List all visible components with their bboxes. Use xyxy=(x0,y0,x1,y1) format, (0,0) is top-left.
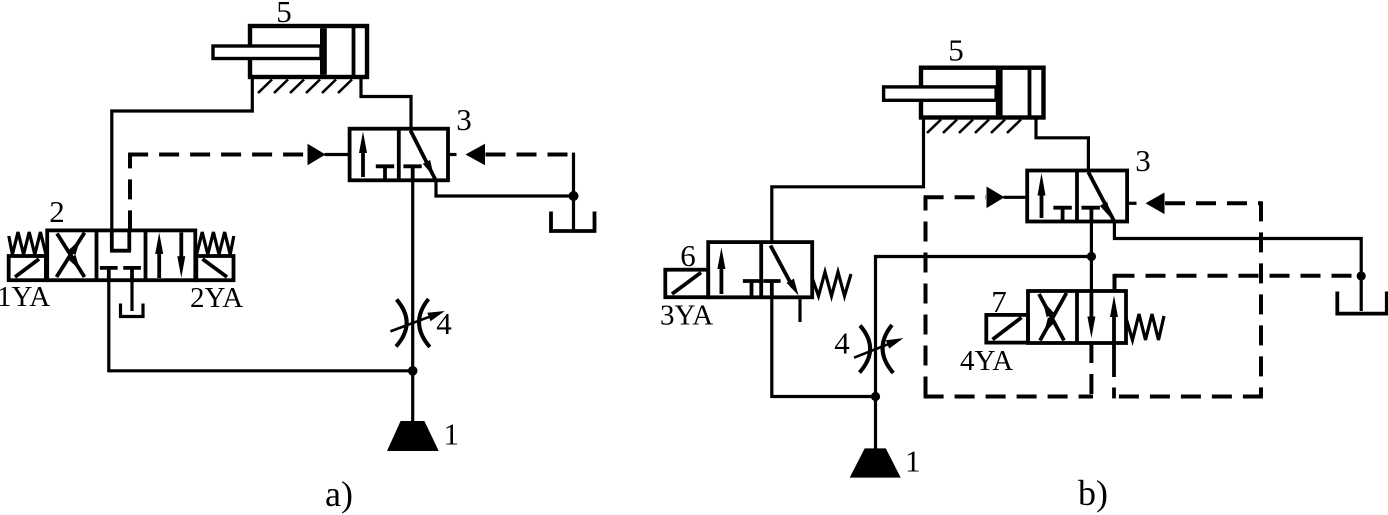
svg-text:a): a) xyxy=(325,474,353,514)
svg-text:5: 5 xyxy=(948,33,964,68)
wire valve 3b bottom right port to exhaust outlet (b) xyxy=(1114,222,1361,312)
solenoid 4YA box xyxy=(986,315,1028,343)
wire cylinder 5b left port to valve 6 top port xyxy=(772,118,924,243)
exhaust outlet right (b) xyxy=(1337,292,1387,314)
valve 2 xyxy=(47,230,195,280)
wire valve 6 bottom port to source junction xyxy=(772,297,876,396)
svg-text:b): b) xyxy=(1078,473,1108,513)
node supply junction (b) xyxy=(1087,252,1096,261)
valve 3 xyxy=(350,129,448,181)
svg-text:1: 1 xyxy=(444,417,460,452)
spring left of valve 2 xyxy=(9,232,46,255)
svg-text:4YA: 4YA xyxy=(960,345,1013,377)
wire cylinder 5b right port to valve 3b top port xyxy=(1036,118,1088,171)
wire supply junction up to valve 3b bottom left port and down to valve 7 xyxy=(1090,222,1093,292)
svg-text:3: 3 xyxy=(456,102,472,137)
svg-text:2: 2 xyxy=(49,194,65,229)
svg-text:4: 4 xyxy=(834,326,850,361)
solenoid 3YA box xyxy=(665,270,708,298)
dashed pilot from exhaust junction to valve 7 top right port xyxy=(1115,274,1362,291)
wire supply junction to throttle and source (b) xyxy=(876,257,1092,449)
air source 1 xyxy=(387,421,439,451)
svg-text:3YA: 3YA xyxy=(660,300,713,332)
spring right of valve 2 xyxy=(197,232,234,255)
wire cylinder 5 left port to valve 2 top port A xyxy=(112,77,253,230)
wire valve 3 bottom left port through throttle to source xyxy=(411,180,414,421)
svg-text:6: 6 xyxy=(680,238,696,273)
air source 1 (b) xyxy=(850,448,901,477)
svg-text:4: 4 xyxy=(436,306,452,341)
node source junction (b) xyxy=(871,392,880,401)
valve 6 xyxy=(708,242,812,322)
solenoid 2YA box xyxy=(196,256,233,280)
cylinder 5 (b) xyxy=(884,68,1044,118)
wire valve 3 bottom right port to exhaust junction xyxy=(436,180,574,196)
valve 3 (b) xyxy=(1027,171,1127,222)
pilot line from right riser to valve 3b right end (dashed with arrow) xyxy=(1127,193,1261,397)
node junction on exhaust line xyxy=(569,191,579,201)
solenoid 1YA box xyxy=(9,256,46,280)
wire cylinder 5 right port to valve 3 top port xyxy=(361,77,411,129)
spring right of valve 6 xyxy=(812,272,851,296)
spring right of valve 7 xyxy=(1126,314,1164,340)
svg-text:3: 3 xyxy=(1135,143,1151,178)
valve 7 xyxy=(1028,291,1126,343)
mounting hatch under cylinder 5 (b) xyxy=(927,120,1021,134)
mounting hatch under cylinder 5 xyxy=(258,80,352,94)
pilot line from valve 2 to valve 3 left end (dashed with arrow) xyxy=(128,144,350,231)
exhaust outlet under valve 2 xyxy=(121,280,144,316)
wire valve 7 bottom right port to rail xyxy=(1112,343,1116,398)
node supply junction xyxy=(408,366,418,376)
cylinder 5 xyxy=(213,26,367,77)
svg-text:2YA: 2YA xyxy=(190,282,243,314)
throttle valve 4 xyxy=(390,299,444,347)
throttle valve 4 (b) xyxy=(854,325,903,373)
exhaust outlet right xyxy=(551,212,595,232)
dashed bottom pilot rail xyxy=(924,395,1093,399)
dashed wire valve 7 bottom left port to rail xyxy=(1089,343,1093,398)
svg-text:1YA: 1YA xyxy=(0,281,50,313)
svg-text:5: 5 xyxy=(276,0,292,29)
wire valve 2 bottom port P to supply junction xyxy=(109,280,413,371)
svg-text:1: 1 xyxy=(905,444,921,479)
pilot line from exhaust junction to valve 3 right end (dashed with arrow) xyxy=(448,144,574,196)
wire junction down to exhaust outlet xyxy=(572,196,575,230)
pilot line from bottom rail to valve 3b left end (dashed with arrow) xyxy=(924,187,1028,397)
node junction on exhaust line (b) xyxy=(1357,271,1366,280)
svg-text:7: 7 xyxy=(991,284,1007,319)
